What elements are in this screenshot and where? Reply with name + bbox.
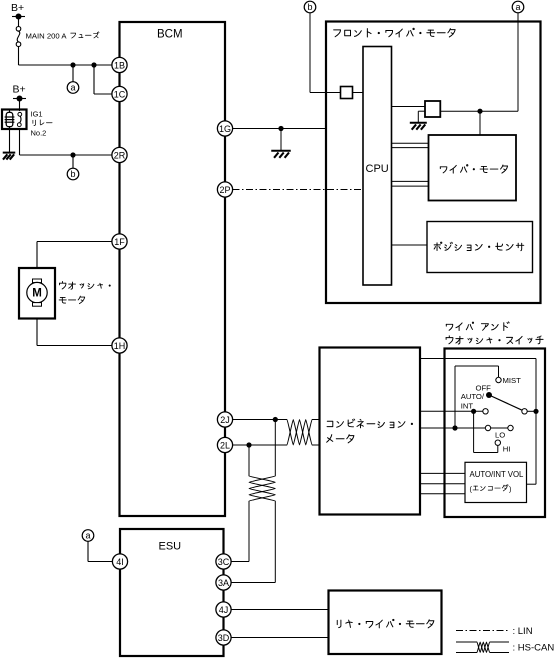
washer motor M1 box (19, 268, 55, 319)
svg-text:3C: 3C (218, 557, 230, 567)
wire ground stub (280, 129, 282, 151)
wire feed to wiper motor (479, 111, 481, 135)
svg-text:1G: 1G (219, 124, 231, 134)
pin 2P (217, 182, 232, 197)
svg-text:b: b (307, 2, 312, 12)
ground relay coil (3, 152, 16, 154)
switch box title ワイパ アンド / ウオッシャ・スイッチ (446, 322, 509, 331)
combination meter label コンビネーション・メータ (327, 419, 413, 428)
svg-text:M: M (32, 288, 42, 300)
contact AUTO/INT (483, 409, 488, 414)
wire 2J HS-CAN high (233, 419, 288, 421)
wire to circle a (72, 65, 74, 82)
pin 2J (217, 412, 232, 427)
svg-text:HI: HI (503, 444, 511, 453)
pin 1G (217, 121, 232, 136)
svg-text:): ) (509, 485, 511, 494)
svg-text:No.2: No.2 (31, 129, 47, 138)
svg-text:3A: 3A (218, 578, 229, 588)
driver block (output stage) (425, 101, 440, 117)
pin 3A (216, 575, 231, 590)
contact HI (495, 440, 500, 445)
relay K1 IG1 relay No.2 box (2, 110, 27, 130)
node a (top) (512, 1, 524, 13)
node junction 1C-stub (91, 62, 96, 67)
svg-text:MAIN 200 A: MAIN 200 A (26, 31, 68, 40)
node a (ESU feed) (82, 530, 94, 542)
wire common to encoder (535, 411, 537, 484)
svg-text:a: a (70, 83, 75, 93)
contact LO right (508, 425, 513, 430)
svg-text:MIST: MIST (503, 376, 522, 385)
svg-text:B+: B+ (13, 84, 26, 96)
wire CPU-motor pair 2b (392, 185, 429, 187)
ESU box (120, 529, 224, 656)
svg-text:3D: 3D (218, 633, 230, 643)
position sensor box (427, 222, 533, 273)
wire B+ to fuse (18, 17, 20, 27)
pin 1B (112, 57, 127, 72)
front wiper motor label フロント・ワイパ・モータ (334, 28, 455, 37)
svg-text:2J: 2J (220, 415, 230, 425)
wire twist to meter low (312, 444, 320, 446)
svg-text:AUTO/: AUTO/ (461, 392, 485, 401)
wire rail to pin 3A (231, 582, 275, 584)
ground G1 body ground (271, 150, 291, 152)
front wiper motor box (326, 22, 541, 304)
svg-text:1B: 1B (114, 60, 125, 70)
wire arm to common (527, 410, 536, 412)
node junction motor feed (477, 109, 482, 114)
svg-text:2R: 2R (114, 150, 126, 160)
twisted pair symbol (horizontal) (287, 420, 312, 446)
wire 1G to front wiper motor (233, 128, 327, 130)
legend LIN line (456, 630, 509, 632)
switch pivot dot (486, 392, 492, 398)
wire meter to AUTO/INT contact (420, 410, 483, 412)
CPU box (363, 47, 392, 286)
node b (to front wiper motor) (67, 168, 79, 180)
wire meter to switch common (420, 358, 536, 360)
wire 2L HS-CAN low (233, 444, 288, 446)
wiper washer switch box (445, 349, 546, 518)
svg-text:LO: LO (495, 430, 505, 439)
pin 4J (216, 602, 231, 617)
node b (top) (304, 1, 316, 13)
legend HS-CAN symbol (456, 641, 477, 643)
wire twist to meter high (312, 419, 320, 421)
svg-text:BCM: BCM (157, 29, 183, 41)
node B+ terminal dot 2 (17, 96, 23, 102)
wiper motor M2 box (429, 135, 517, 201)
wire bus to pin 1B (19, 64, 113, 66)
svg-text:ESU: ESU (159, 541, 182, 553)
wire CPU-motor pair 2a (392, 180, 429, 182)
wire HS-CAN high down-rail (274, 420, 276, 477)
node B+ terminal tick 2 (13, 98, 26, 100)
svg-text:2L: 2L (220, 440, 230, 450)
pin 3D (216, 630, 231, 645)
wiper motor label ワイパ・モータ (440, 165, 507, 173)
wire CPU-motor pair 1b (392, 147, 429, 149)
combination meter box (320, 348, 421, 515)
wire HS-CAN low down-rail (248, 445, 250, 476)
switch blade arm (489, 395, 522, 410)
twisted pair symbol (vertical) (249, 476, 275, 501)
node junction ground stub (278, 126, 283, 131)
wire driver ground L (418, 110, 425, 112)
washer motor brush bottom (33, 303, 42, 307)
svg-text:b: b (70, 169, 75, 179)
svg-text:: LIN: : LIN (513, 626, 533, 637)
wire CPU to position sensor (392, 244, 428, 246)
washer motor brush top (33, 279, 42, 283)
svg-text:INT: INT (461, 401, 474, 410)
svg-text:: HS-CAN: : HS-CAN (513, 643, 555, 654)
BCM box (120, 22, 226, 516)
wire 3D to rear wiper motor (231, 637, 329, 639)
contact arm end (522, 409, 527, 414)
ground G2 driver ground (410, 122, 427, 124)
pin 3C (216, 554, 231, 569)
wire to pin 1C (93, 65, 95, 94)
encoder box AUTO/INT VOL (465, 462, 527, 502)
node junction HS-CAN low (246, 442, 251, 447)
wire MIST feed (454, 366, 456, 428)
wire connector to CPU (353, 92, 364, 94)
svg-text:(: ( (470, 485, 473, 494)
node junction common (533, 409, 538, 414)
svg-text:AUTO/INT VOL: AUTO/INT VOL (470, 470, 525, 479)
svg-text:4I: 4I (116, 557, 124, 567)
washer motor M symbol (27, 282, 47, 302)
connector/filter component at CPU input (341, 87, 353, 99)
svg-text:B+: B+ (11, 2, 24, 14)
svg-text:a: a (85, 531, 90, 541)
relay switch contacts (18, 112, 22, 116)
svg-text:1C: 1C (114, 89, 126, 99)
wire meter to LO contact (420, 427, 485, 429)
node junction LO-MIST (452, 425, 457, 430)
pin 2L (217, 437, 232, 452)
svg-text:CPU: CPU (366, 163, 389, 175)
node B+ terminal tick (12, 16, 25, 18)
pin 1C (112, 86, 127, 101)
contact MIST (496, 377, 501, 382)
svg-text:IG1: IG1 (31, 110, 43, 119)
rear wiper motor box (329, 591, 442, 655)
wire driver to motor feed (440, 110, 480, 112)
washer motor label ウオッシャ・モータ (60, 281, 111, 289)
wire fuse to bus (18, 46, 20, 65)
relay coil (6, 112, 13, 126)
wire a feed down from top (517, 13, 519, 111)
node junction AUTO/INT-HI (471, 409, 476, 414)
wire washer motor to pin 1H (36, 319, 38, 346)
svg-text:4J: 4J (219, 605, 229, 615)
wire 2P LIN to CPU (dash-dot) (233, 189, 364, 191)
svg-text:2P: 2P (219, 185, 230, 195)
wire B+ to relay switch (19, 99, 21, 112)
svg-text:1H: 1H (114, 341, 126, 351)
wire LO contacts (491, 427, 508, 429)
node B+ terminal dot (16, 14, 22, 20)
wire meter-encoder 2 (420, 483, 465, 485)
wire 4J to rear wiper motor (231, 609, 329, 611)
wire b to connector (309, 13, 311, 93)
pin 2R (112, 147, 127, 162)
pin 4I (112, 554, 127, 569)
position sensor label ポジション・センサ (434, 242, 524, 251)
wire relay coil to ground (9, 129, 11, 153)
wire HI to AUTO/INT junction (497, 446, 499, 453)
fuse F1 MAIN 200 A (16, 27, 21, 32)
node junction HS-CAN high (273, 417, 278, 422)
wire common down to pivot (535, 359, 537, 412)
wire meter-encoder 3 (420, 493, 465, 495)
node junction a-stub (70, 62, 75, 67)
rear wiper motor label リヤ・ワイパ・モータ (337, 619, 434, 627)
wire relay to pin 2R (19, 129, 21, 155)
wire to circle b (72, 155, 74, 168)
node junction b-stub (70, 152, 75, 157)
wire a to pin 4I (87, 541, 89, 561)
wire rail to pin 3C (231, 561, 249, 563)
wire CPU-motor pair 1a (392, 142, 429, 144)
pin 1H (112, 338, 127, 353)
wire meter-encoder 1 (420, 472, 465, 474)
wire CPU to driver block (392, 106, 426, 108)
svg-text:1F: 1F (114, 237, 125, 247)
wire pin 1F to washer motor (37, 241, 112, 243)
pin 1F (112, 234, 127, 249)
node a (to ESU 4I) (67, 82, 79, 94)
contact LO left (485, 425, 490, 430)
svg-text:a: a (515, 2, 520, 12)
